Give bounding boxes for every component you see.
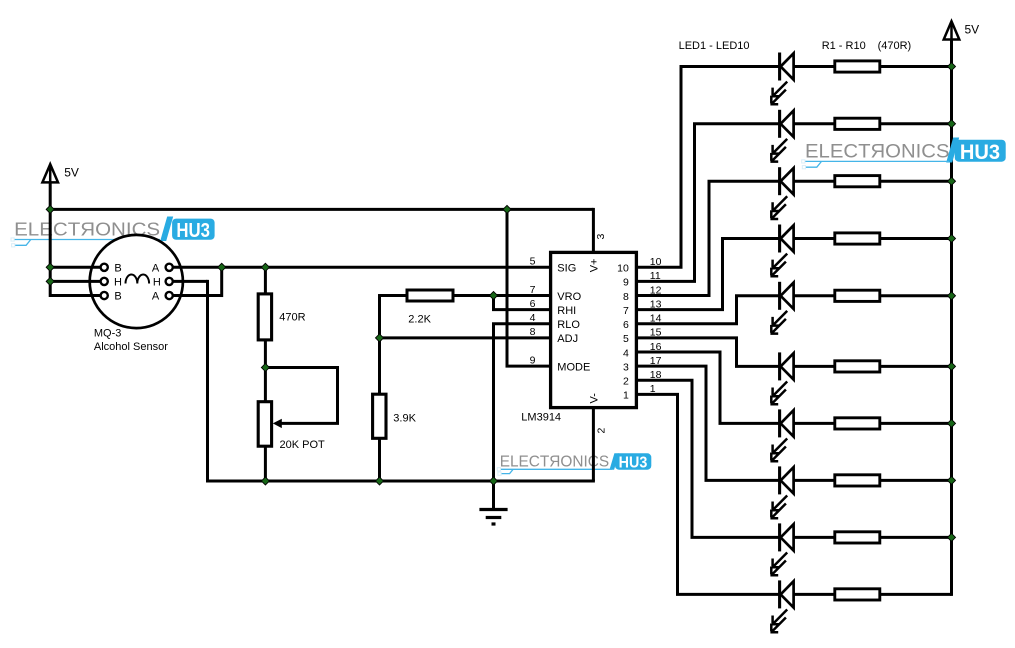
junction VRO-RHI (489, 291, 498, 300)
wire bottom ground rail (208, 480, 595, 483)
wire LM3914 pin 10 to LED1 (636, 266, 682, 269)
wire pot wiper shaft (278, 422, 339, 425)
wire sensor A top to SIG (172, 266, 550, 269)
wire LM3914 pin 18 to LED9 (636, 379, 693, 382)
svg-text:8: 8 (530, 326, 536, 338)
junction 3.9K ground (375, 476, 384, 485)
wire ground stem (492, 481, 495, 510)
junction 470R-pot (261, 363, 270, 372)
svg-text:H: H (114, 277, 122, 289)
wire ADJ wire (380, 336, 551, 339)
junction 5V rail row 4 (947, 234, 956, 243)
svg-text:B: B (114, 291, 121, 303)
wire A bottom riser (220, 267, 223, 297)
junction 5V rail row 6 (947, 362, 956, 371)
svg-text:16: 16 (650, 341, 662, 353)
svg-text:ADJ: ADJ (557, 333, 578, 345)
potentiometer 20K POT (258, 402, 271, 447)
power 5V arrow left (42, 164, 58, 182)
svg-text:4: 4 (530, 312, 536, 324)
svg-text:11: 11 (650, 270, 661, 282)
svg-text:7: 7 (623, 305, 629, 317)
wire 3.9K bottom lead (378, 438, 381, 481)
svg-text:RLO: RLO (557, 319, 580, 331)
junction ADJ node (375, 333, 384, 342)
junction left rail B (46, 263, 55, 272)
svg-text:A: A (152, 263, 160, 275)
wire LM3914 pin 14 to LED5 (636, 322, 738, 325)
LED D10 (794, 593, 835, 596)
svg-text:3: 3 (623, 361, 629, 373)
svg-text:A: A (152, 291, 160, 303)
wire top rail 5V to V+ (49, 208, 594, 211)
svg-text:6: 6 (530, 298, 536, 310)
svg-text:9: 9 (530, 354, 536, 366)
svg-text:14: 14 (650, 313, 662, 325)
resistor R7 (835, 418, 880, 429)
resistor R5 (835, 290, 880, 301)
junction 5V rail row 8 (947, 476, 956, 485)
resistor 2.2K (407, 290, 453, 301)
resistor 470R (258, 294, 271, 340)
svg-text:1: 1 (623, 390, 629, 402)
sensor MQ-3 body circle (90, 235, 183, 328)
junction 5V rail row 5 (947, 291, 956, 300)
resistor R4 (835, 233, 880, 244)
svg-text:3: 3 (595, 234, 607, 240)
svg-text:8: 8 (623, 291, 629, 303)
wire 2.2K left riser (378, 294, 381, 338)
wire pot wiper loop right (336, 366, 339, 423)
wire LM3914 pin 11 to LED2 (636, 280, 696, 283)
junction 5V rail row 1 (947, 62, 956, 71)
ground (479, 508, 507, 511)
svg-text:2: 2 (623, 376, 629, 388)
svg-text:Alcohol Sensor: Alcohol Sensor (94, 341, 168, 353)
svg-text:ELECTЯONICS: ELECTЯONICS (805, 142, 950, 163)
wire right 5V rail (950, 36, 953, 596)
wire left 5V rail (49, 175, 52, 297)
svg-text:5: 5 (530, 256, 536, 268)
junction node A (217, 263, 226, 272)
wire V- riser pin2 (592, 408, 595, 481)
svg-text:5V: 5V (965, 23, 980, 37)
wire pot wiper loop top (265, 366, 337, 369)
svg-text:LED1 - LED10: LED1 - LED10 (679, 40, 750, 52)
junction 5V rail row 9 (947, 533, 956, 542)
svg-text:R1 - R10: R1 - R10 (822, 40, 866, 52)
resistor R3 (835, 176, 880, 187)
wire sensor pin B bottom stub (50, 294, 101, 297)
resistor R10 (835, 589, 880, 600)
svg-text:RHI: RHI (557, 305, 576, 317)
svg-text:10: 10 (617, 263, 629, 275)
svg-text:15: 15 (650, 327, 662, 339)
wire sensor H right stub (172, 280, 207, 283)
wire RLO stub (492, 322, 551, 325)
wire LM3914 pin 12 to LED3 (636, 294, 710, 297)
svg-text:20K POT: 20K POT (280, 439, 326, 451)
wire LM3914 pin 15 to LED6 (636, 336, 738, 339)
wire sensor A bottom stub (172, 294, 221, 297)
junction MODE tap (502, 205, 511, 214)
svg-text:2.2K: 2.2K (408, 314, 431, 326)
resistor R8 (835, 475, 880, 486)
svg-text:5V: 5V (64, 166, 79, 180)
svg-text:VRO: VRO (557, 291, 581, 303)
svg-text:HU3: HU3 (176, 219, 210, 242)
svg-text:470R: 470R (279, 312, 305, 324)
power 5V arrow right (944, 21, 960, 39)
wire MODE stub (506, 365, 551, 368)
svg-text:B: B (114, 263, 121, 275)
junction left rail top (46, 205, 55, 214)
svg-text:(470R): (470R) (878, 40, 912, 52)
junction 5V rail row 3 (947, 177, 956, 186)
svg-text:HU3: HU3 (619, 455, 648, 472)
wire LM3914 pin 1 to LED10 (636, 393, 679, 396)
svg-text:6: 6 (623, 319, 629, 331)
svg-text:10: 10 (650, 256, 662, 268)
wire RHI stub (492, 308, 551, 311)
wire RLO ground riser (492, 324, 495, 481)
resistor R2 (835, 118, 880, 129)
svg-text:V-: V- (589, 393, 601, 404)
svg-text:LM3914: LM3914 (521, 412, 561, 424)
svg-text:17: 17 (650, 355, 662, 367)
resistor R1 (835, 61, 880, 72)
sensor heater coil (126, 275, 150, 284)
LED D4 (794, 237, 835, 240)
svg-text:13: 13 (650, 298, 662, 310)
wire H ground riser (206, 280, 209, 483)
op-amp U1 LM3914 body (551, 252, 637, 407)
wire 2.2K right to VRO (453, 294, 551, 297)
junction 5V rail row 7 (947, 419, 956, 428)
wire LM3914 pin 16 to LED7 (636, 351, 721, 354)
wire 470R top lead (264, 267, 267, 294)
wire VRO-RHI riser (492, 296, 495, 310)
svg-text:MODE: MODE (557, 361, 590, 373)
wire V+ riser pin3 (592, 208, 595, 253)
junction pot ground (261, 476, 270, 485)
LED D6 (794, 365, 835, 368)
wire sensor pin H left stub (50, 280, 101, 283)
junction ground node (489, 476, 498, 485)
wire MODE riser (506, 209, 509, 366)
svg-text:SIG: SIG (557, 263, 576, 275)
LED D2 (794, 122, 835, 125)
LED D5 (794, 294, 835, 297)
svg-text:MQ-3: MQ-3 (94, 328, 122, 340)
svg-text:HU3: HU3 (960, 140, 1000, 164)
svg-text:18: 18 (650, 369, 662, 381)
wire sensor pin B top stub (50, 266, 101, 269)
resistor R9 (835, 532, 880, 543)
svg-text:V+: V+ (588, 259, 600, 273)
svg-text:2: 2 (596, 428, 608, 434)
wire 470R to pot (264, 340, 267, 402)
junction 5V rail row 2 (947, 119, 956, 128)
junction left rail H (46, 277, 55, 286)
svg-text:3.9K: 3.9K (393, 413, 416, 425)
LED D1 (794, 65, 835, 68)
resistor R6 (835, 361, 880, 372)
svg-text:4: 4 (623, 347, 629, 359)
wire LM3914 pin 13 to LED4 (636, 308, 724, 311)
wire 3.9K top lead (378, 339, 381, 394)
wire pot bottom lead (264, 446, 267, 481)
svg-text:12: 12 (650, 284, 662, 296)
resistor 3.9K (373, 394, 386, 438)
LED D7 (794, 422, 835, 425)
sensor MQ-3 pin circles (101, 264, 108, 271)
svg-text:1: 1 (650, 383, 656, 395)
svg-text:7: 7 (530, 284, 536, 296)
junction 470R top (261, 263, 270, 272)
LED D8 (794, 479, 835, 482)
LED D3 (794, 180, 835, 183)
svg-text:9: 9 (623, 277, 629, 289)
wire LM3914 pin 17 to LED8 (636, 365, 707, 368)
svg-text:H: H (153, 277, 161, 289)
svg-text:5: 5 (623, 333, 629, 345)
wire 2.2K left lead (380, 294, 408, 297)
LED D9 (794, 536, 835, 539)
